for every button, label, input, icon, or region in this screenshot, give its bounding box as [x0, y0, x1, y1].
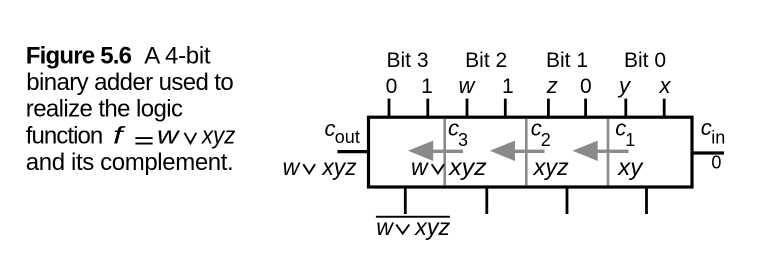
svg-text:Bit 2: Bit 2 — [465, 49, 507, 72]
svg-text:0: 0 — [711, 152, 721, 172]
svg-text:A 4-bit: A 4-bit — [144, 42, 211, 69]
svg-text:0: 0 — [580, 75, 592, 98]
svg-text:c: c — [701, 115, 712, 140]
svg-text:and its complement.: and its complement. — [26, 149, 234, 176]
svg-text:function: function — [26, 123, 102, 150]
svg-text:xy: xy — [617, 154, 644, 180]
svg-text:binary adder used to: binary adder used to — [26, 69, 233, 96]
svg-text:Figure 5.6: Figure 5.6 — [26, 42, 132, 69]
svg-text:w: w — [283, 154, 301, 180]
svg-text:Bit 1: Bit 1 — [546, 49, 588, 72]
svg-text:y: y — [617, 73, 632, 98]
svg-text:f: f — [113, 123, 126, 150]
svg-text:x: x — [659, 73, 672, 98]
svg-text:1: 1 — [421, 75, 433, 98]
svg-text:in: in — [711, 128, 725, 148]
svg-text:w: w — [376, 214, 394, 240]
svg-text:realize the logic: realize the logic — [26, 96, 183, 123]
svg-text:xyz: xyz — [201, 123, 235, 150]
svg-text:Bit 3: Bit 3 — [386, 49, 428, 72]
svg-text:out: out — [335, 127, 360, 147]
svg-text:w: w — [459, 73, 477, 98]
svg-text:2: 2 — [541, 130, 551, 150]
svg-text:xyz: xyz — [448, 154, 487, 180]
svg-text:xyz: xyz — [321, 154, 357, 180]
svg-text:1: 1 — [625, 130, 635, 150]
svg-text:Bit 0: Bit 0 — [624, 49, 666, 72]
svg-text:xyz: xyz — [414, 214, 451, 240]
svg-text:z: z — [546, 73, 558, 98]
svg-text:xyz: xyz — [533, 154, 570, 180]
svg-text:w: w — [157, 123, 181, 150]
svg-text:w: w — [411, 154, 429, 180]
svg-text:1: 1 — [502, 75, 514, 98]
svg-text:3: 3 — [458, 130, 468, 150]
svg-text:0: 0 — [386, 75, 398, 98]
